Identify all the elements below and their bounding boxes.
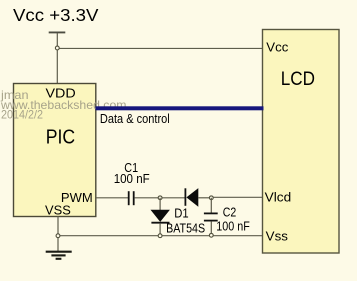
ground symbol <box>46 251 72 253</box>
wire PIC VSS down <box>57 217 59 252</box>
node A <box>158 196 162 200</box>
svg-text:BAT54S: BAT54S <box>166 222 205 236</box>
wire Vcc bar to PIC VDD <box>56 33 58 84</box>
svg-text:VSS: VSS <box>45 203 71 218</box>
wire D1 anode to node B <box>198 197 211 199</box>
bus Data & control (blue) <box>96 106 264 110</box>
node Vcc junction <box>55 46 59 50</box>
wire PWM to C1 <box>96 197 128 199</box>
node C2 rail junction <box>209 233 213 237</box>
svg-text:VDD: VDD <box>46 86 76 101</box>
svg-text:100 nF: 100 nF <box>114 172 150 186</box>
Vcc power bar symbol <box>49 31 66 33</box>
svg-text:PIC: PIC <box>46 125 76 148</box>
svg-text:Vcc: Vcc <box>266 40 289 55</box>
diode D1a vertical (cathode down) <box>151 210 170 222</box>
PIC box <box>14 84 96 217</box>
svg-text:LCD: LCD <box>281 69 315 90</box>
wire D1a to bottom rail <box>159 224 161 236</box>
svg-text:C2: C2 <box>223 206 237 220</box>
node VSS junction <box>56 234 60 238</box>
svg-text:100 nF: 100 nF <box>216 219 250 233</box>
capacitor C2 <box>204 212 218 214</box>
wire C2 to bottom rail <box>210 222 212 236</box>
wire C1 to node A <box>135 197 185 199</box>
capacitor C1 <box>128 191 130 205</box>
svg-text:Vcc +3.3V: Vcc +3.3V <box>13 5 99 25</box>
wire node A down to D1a <box>159 198 161 210</box>
svg-text:2014/2/2: 2014/2/2 <box>1 107 43 121</box>
svg-text:Vss: Vss <box>266 229 289 244</box>
svg-text:Data & control: Data & control <box>100 112 170 126</box>
wire node B down to C2 <box>210 198 212 213</box>
bottom rail VSS <box>58 235 262 237</box>
diode D1b horizontal (cathode left) <box>184 188 186 206</box>
node D1a rail junction <box>158 234 162 238</box>
node B <box>209 196 213 200</box>
LCD box <box>263 30 340 254</box>
wire node B to LCD Vlcd <box>211 196 262 198</box>
svg-text:Vlcd: Vlcd <box>265 189 292 204</box>
svg-text:D1: D1 <box>174 207 188 221</box>
wire Vcc rail to LCD Vcc <box>57 47 262 49</box>
